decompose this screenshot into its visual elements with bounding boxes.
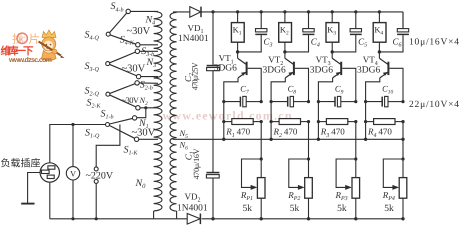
capacitor C2 470u/25V <box>207 12 220 139</box>
junction dot top rail C4 <box>307 10 310 13</box>
svg-text:www.dzsc.com: www.dzsc.com <box>8 56 52 64</box>
potentiometer RP4 5k <box>383 159 407 219</box>
transformer left winding N4 N3 N2 N1 N0 <box>154 11 162 218</box>
svg-text:~30V: ~30V <box>132 128 156 139</box>
junction dot top rail K2 <box>283 10 286 13</box>
junction dot R3 left <box>317 120 320 123</box>
wire top rail end corner to C6 <box>402 12 404 29</box>
transistor VT3 3DG6 <box>318 52 355 139</box>
wire N5 top to diode VD1 <box>173 11 190 13</box>
svg-text:V: V <box>70 169 77 179</box>
potentiometer RP2 5k <box>289 159 313 219</box>
transistor VT2 3DG6 <box>271 52 308 139</box>
junction dot wiper branch (stage 2) <box>307 157 310 160</box>
svg-text:1N4001: 1N4001 <box>177 204 208 214</box>
junction dot C10 right (base node) <box>401 100 404 103</box>
junction dot C9 left <box>317 100 320 103</box>
junction dot emitter rail to tap rail (stage 1) <box>222 138 225 141</box>
svg-text:470: 470 <box>284 127 298 137</box>
svg-text:3DG6: 3DG6 <box>310 66 333 76</box>
capacitor C10 22u/10V <box>366 96 403 106</box>
svg-text:10μ/16V×4: 10μ/16V×4 <box>409 37 459 47</box>
svg-text:~30V: ~30V <box>127 26 151 37</box>
capacitor C4 10u/16V <box>285 12 315 52</box>
junction dot collector node K3 <box>331 50 334 53</box>
junction dot top rail K4 <box>378 10 381 13</box>
wire socket to ground <box>28 173 40 204</box>
svg-text:22μ/10V×4: 22μ/10V×4 <box>409 100 459 110</box>
wire load top rail to S1-Q pole <box>50 125 106 164</box>
junction dot voltmeter top <box>71 123 74 126</box>
svg-text:470: 470 <box>378 127 392 137</box>
svg-text:5k: 5k <box>290 204 300 214</box>
svg-text:1N4001: 1N4001 <box>178 34 209 44</box>
junction dot collector node K1 <box>236 50 239 53</box>
resistor R2 470 <box>271 119 308 125</box>
svg-text:470μ/25V: 470μ/25V <box>191 62 200 90</box>
junction dot 220V bottom <box>95 217 98 220</box>
junction dot voltmeter bottom <box>71 217 74 220</box>
junction dot C7 right (base node) <box>260 100 263 103</box>
junction dot wiper branch (stage 4) <box>401 157 404 160</box>
svg-text:负载插座: 负载插座 <box>1 157 41 169</box>
svg-text:470: 470 <box>237 127 251 137</box>
junction dot emitter rail to tap rail (stage 3) <box>317 138 320 141</box>
wire 220V input riser <box>96 125 120 219</box>
junction dot wiper branch (stage 3) <box>354 157 357 160</box>
junction dot C8 left <box>270 100 273 103</box>
junction dot R2 left <box>270 120 273 123</box>
svg-text:470: 470 <box>331 127 345 137</box>
wire base line to potentiometer (stage 4) <box>402 122 404 178</box>
relay K4 <box>373 12 386 52</box>
junction dot C7 left <box>222 100 225 103</box>
resistor R1 470 <box>224 119 261 125</box>
diode VD1 1N4001 <box>190 7 201 18</box>
junction dot tap rail end stage4 <box>401 138 404 141</box>
junction dot C8 right (base node) <box>307 100 310 103</box>
relay K3 <box>326 12 339 52</box>
potentiometer RP1 5k <box>242 159 266 219</box>
junction dot R4 left <box>364 120 367 123</box>
capacitor C6 10u/16V <box>379 12 409 52</box>
junction dot bottom rail C-line <box>211 217 214 220</box>
junction dot wiper branch (stage 1) <box>260 157 263 160</box>
svg-text:3DG6: 3DG6 <box>357 66 380 76</box>
svg-text:www.eeworld.com.cn: www.eeworld.com.cn <box>163 109 292 123</box>
watermark logo 维库一下 www.dzsc.com with mascot <box>1 30 65 64</box>
resistor R4 470 <box>366 119 403 125</box>
switch S4 (pole S4-Q, contacts S4-b / S4-K) <box>106 9 158 47</box>
junction dot pot bottom (stage 4) <box>401 217 404 220</box>
svg-text:3DG6: 3DG6 <box>214 64 237 74</box>
wire center tap rail <box>173 138 404 140</box>
load socket 负载插座 <box>40 163 59 182</box>
switch S2 (pole S2-Q, contacts S2-b / S2-K) <box>106 81 158 118</box>
junction dot top rail C3 <box>260 10 263 13</box>
junction dot R1 right <box>260 120 263 123</box>
capacitor C1 470u/16V <box>206 139 219 219</box>
junction dot top rail K3 <box>331 10 334 13</box>
capacitor C3 10u/16V <box>238 12 268 52</box>
junction dot collector node K2 <box>283 50 286 53</box>
svg-text:5k: 5k <box>337 204 347 214</box>
capacitor C9 22u/10V <box>318 96 355 106</box>
voltmeter V <box>66 125 79 219</box>
wire base line to potentiometer (stage 1) <box>260 122 262 178</box>
capacitor C5 10u/16V <box>332 12 362 52</box>
junction dot pot bottom (stage 3) <box>354 217 357 220</box>
junction dot top rail C2 <box>211 10 214 13</box>
diode VD2 1N4001 <box>187 214 200 225</box>
switch S3 (pole S3-Q, contacts S3-b / S3-K) <box>106 49 158 79</box>
wire base line to potentiometer (stage 3) <box>355 122 357 178</box>
junction dot emitter rail to tap rail (stage 4) <box>364 138 367 141</box>
svg-text:5k: 5k <box>243 204 253 214</box>
svg-text:~220V: ~220V <box>86 170 114 181</box>
junction dot top rail C5 <box>354 10 357 13</box>
junction dot emitter rail to tap rail (stage 2) <box>269 138 272 141</box>
svg-text:470μ/16V: 470μ/16V <box>192 148 201 179</box>
capacitor C8 22u/10V <box>271 96 308 106</box>
junction dot R4 right <box>401 120 404 123</box>
transistor VT1 3DG6 <box>224 52 261 139</box>
wire socket bottom to common rail <box>49 182 51 219</box>
resistor R3 470 <box>318 119 355 125</box>
junction dot R3 right <box>354 120 357 123</box>
junction dot pot bottom (stage 1) <box>260 217 263 220</box>
potentiometer RP3 5k <box>336 159 360 219</box>
junction dot R2 right <box>307 120 310 123</box>
terminal circle 220V upper <box>94 167 98 171</box>
wire top rail <box>201 11 403 13</box>
wire bottom common rail <box>50 218 403 220</box>
wire base line to potentiometer (stage 2) <box>308 122 310 178</box>
svg-text:IC: IC <box>19 37 26 44</box>
svg-text:~30V: ~30V <box>122 64 146 75</box>
junction dot R1 left <box>222 120 225 123</box>
junction dot C9 right (base node) <box>354 100 357 103</box>
junction dot C10 left <box>364 100 367 103</box>
svg-text:5k: 5k <box>384 204 394 214</box>
transistor VT4 3DG6 <box>366 52 403 139</box>
svg-text:片: 片 <box>29 33 41 46</box>
relay K1 <box>231 12 244 52</box>
capacitor C7 22u/10V <box>224 96 261 106</box>
svg-text:维库一下: 维库一下 <box>1 45 35 58</box>
transformer right winding N5 N6 <box>170 12 177 218</box>
switch S1 (pole S1-Q, contacts S1-b / S1-K) <box>106 116 159 142</box>
junction dot collector node K4 <box>378 50 381 53</box>
svg-text:3DG6: 3DG6 <box>263 66 286 76</box>
ground <box>21 203 34 205</box>
terminal circle 220V lower <box>94 179 98 183</box>
junction dot top rail K1 <box>236 10 239 13</box>
svg-text:~30V: ~30V <box>122 95 140 105</box>
junction dot pot bottom (stage 2) <box>307 217 310 220</box>
relay K2 <box>279 12 292 52</box>
